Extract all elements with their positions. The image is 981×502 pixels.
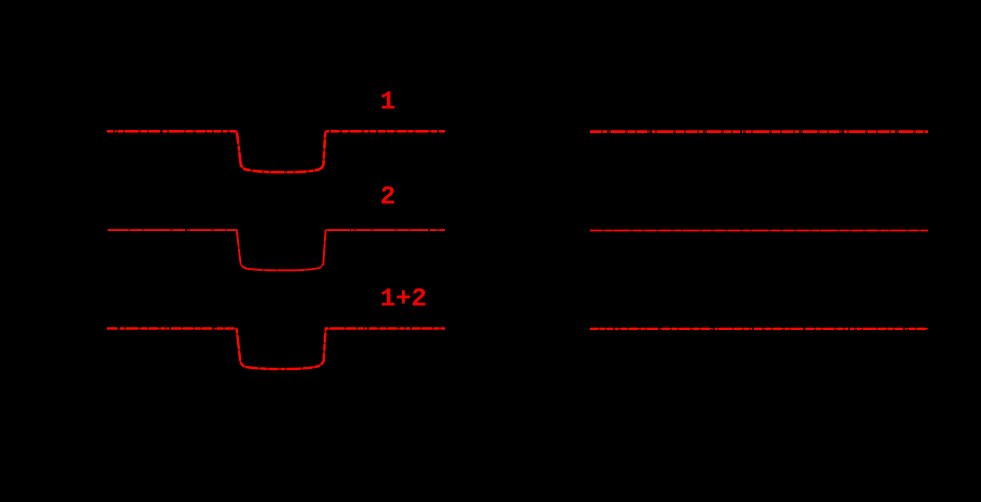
trace 2 right segment (590, 230, 928, 232)
trace 1 left segment with dip (107, 131, 445, 172)
trace 3 right segment (590, 328, 928, 330)
svg-text:1: 1 (380, 87, 396, 117)
svg-text:1+2: 1+2 (380, 284, 427, 314)
trace 3 left segment with dip (107, 329, 445, 369)
trace 1 right segment (590, 131, 928, 133)
svg-text:2: 2 (380, 182, 396, 212)
trace 2 left segment with dip (107, 230, 445, 270)
